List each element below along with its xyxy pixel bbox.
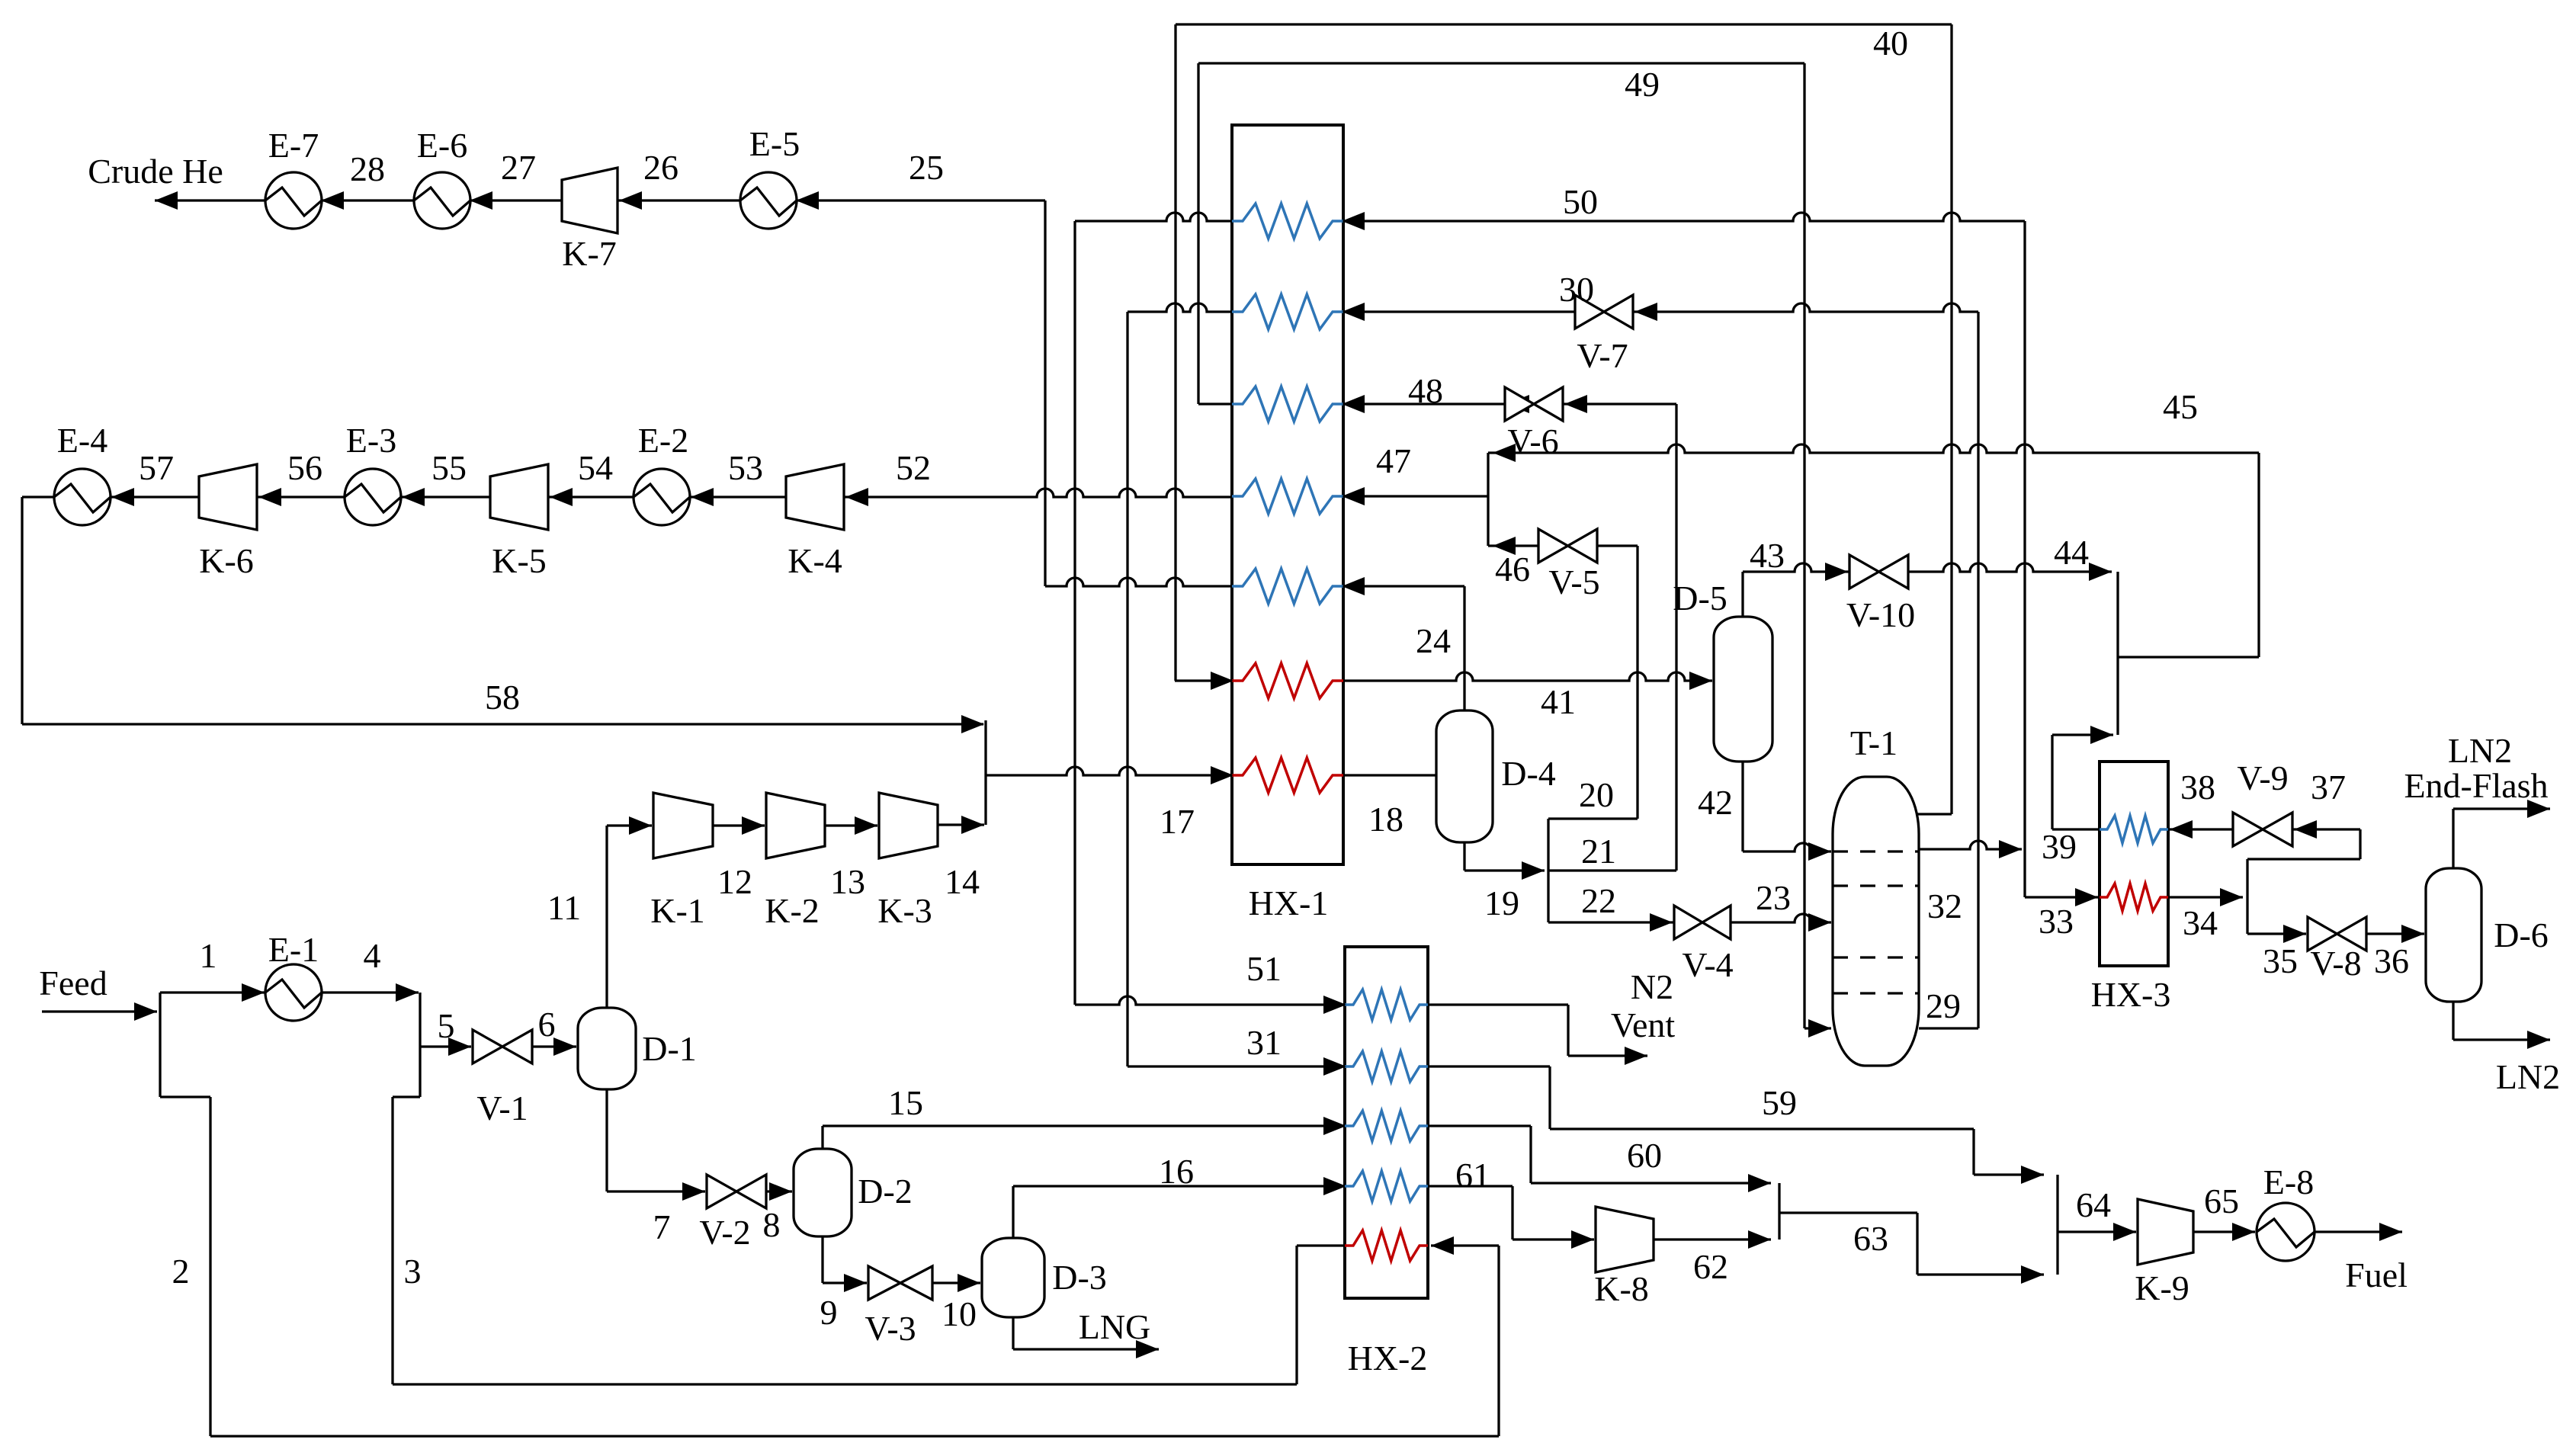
svg-text:60: 60 bbox=[1627, 1136, 1662, 1175]
wire stream 10 to D-3 bbox=[932, 1281, 980, 1284]
wire coil1 exit to stream 51 bbox=[1075, 213, 1232, 221]
wire coil3 exit to stream 49 bbox=[1198, 402, 1232, 405]
svg-text:V-5: V-5 bbox=[1548, 563, 1599, 601]
wire stream 32 bbox=[1919, 841, 2022, 849]
wire stream 17 into red coil bbox=[986, 767, 1232, 775]
compressor K-8 bbox=[1596, 1207, 1654, 1272]
compressor K-2 bbox=[766, 793, 825, 858]
svg-text:44: 44 bbox=[2054, 533, 2089, 572]
svg-text:End-Flash: End-Flash bbox=[2404, 766, 2548, 805]
valve V-2 bbox=[707, 1175, 736, 1208]
svg-text:61: 61 bbox=[1455, 1156, 1490, 1195]
wire stream 28 bbox=[321, 199, 415, 201]
wire stream 3 from red coil bbox=[1297, 1244, 1345, 1246]
svg-text:24: 24 bbox=[1416, 621, 1451, 660]
wire stream 37 bbox=[2292, 828, 2360, 830]
svg-text:31: 31 bbox=[1246, 1023, 1282, 1062]
valve V-9 bbox=[2233, 813, 2263, 846]
svg-text:50: 50 bbox=[1563, 182, 1598, 221]
svg-text:E-7: E-7 bbox=[268, 126, 319, 165]
svg-text:36: 36 bbox=[2374, 941, 2409, 980]
wire stream 42 bbox=[1741, 762, 1744, 851]
svg-text:18: 18 bbox=[1368, 800, 1403, 839]
wire stream 38 with valve V-9 bbox=[2168, 828, 2233, 830]
svg-text:2: 2 bbox=[172, 1252, 190, 1291]
svg-text:47: 47 bbox=[1376, 441, 1411, 480]
svg-text:14: 14 bbox=[945, 862, 980, 901]
wire stream 19 bbox=[1463, 842, 1465, 871]
svg-text:K-3: K-3 bbox=[877, 891, 932, 930]
HX-2 blue coil stream 31 bbox=[1345, 1051, 1428, 1082]
wire stream 44 bbox=[1908, 563, 2112, 572]
wire stream 51 bbox=[1075, 996, 1345, 1005]
svg-text:38: 38 bbox=[2180, 768, 2215, 807]
svg-text:12: 12 bbox=[717, 862, 752, 901]
node stream 3/4 junction bbox=[419, 993, 421, 1097]
wire stream 36 to D-6 bbox=[2366, 932, 2424, 935]
svg-text:49: 49 bbox=[1625, 65, 1660, 104]
node 60+62 merge bbox=[1778, 1183, 1780, 1240]
wire stream 21 to V-6 bbox=[1563, 402, 1676, 405]
wire stream 40 bbox=[1176, 23, 1952, 25]
multi-stream heat exchanger HX-2 bbox=[1345, 947, 1428, 1298]
heat exchanger E-3 bbox=[345, 469, 401, 525]
svg-text:62: 62 bbox=[1693, 1247, 1728, 1286]
svg-text:56: 56 bbox=[287, 448, 322, 487]
wire LN2 End-Flash outlet bbox=[2452, 809, 2454, 868]
svg-text:26: 26 bbox=[643, 148, 678, 187]
wire N2 Vent outlet bbox=[1428, 1003, 1568, 1005]
vessel D-1 bbox=[578, 1008, 636, 1089]
wire stream 5 to valve V-1 bbox=[420, 1045, 471, 1047]
wire stream 65 to E-8 bbox=[2193, 1230, 2255, 1233]
compressor K-5 bbox=[490, 464, 548, 530]
HX-1 blue coil stream 47 bbox=[1232, 479, 1343, 514]
wire stream 4 bbox=[321, 991, 419, 993]
svg-text:7: 7 bbox=[653, 1207, 671, 1246]
compressor K-6 bbox=[199, 464, 257, 530]
svg-text:E-8: E-8 bbox=[2263, 1163, 2314, 1201]
wire LN2 outlet bbox=[2452, 1002, 2454, 1040]
wire stream 1 bbox=[160, 991, 265, 993]
svg-text:E-2: E-2 bbox=[638, 421, 688, 460]
wire stream 56 bbox=[257, 495, 345, 498]
svg-text:HX-1: HX-1 bbox=[1249, 884, 1329, 922]
svg-text:41: 41 bbox=[1541, 682, 1576, 721]
svg-text:39: 39 bbox=[2042, 827, 2077, 866]
svg-text:D-5: D-5 bbox=[1673, 579, 1727, 617]
svg-text:Crude He: Crude He bbox=[88, 152, 223, 191]
svg-text:V-2: V-2 bbox=[699, 1213, 750, 1252]
wire stream 14 bbox=[938, 823, 984, 826]
svg-text:40: 40 bbox=[1873, 24, 1908, 63]
wire stream 20 to V-5 bbox=[1597, 544, 1638, 547]
svg-text:LN2: LN2 bbox=[2448, 731, 2512, 770]
wire stream 62 bbox=[1654, 1238, 1771, 1240]
svg-text:LN2: LN2 bbox=[2496, 1057, 2560, 1096]
svg-text:K-4: K-4 bbox=[788, 541, 842, 580]
wire stream 63 bbox=[1779, 1211, 1917, 1214]
compressor K-3 bbox=[879, 793, 938, 858]
svg-text:22: 22 bbox=[1581, 881, 1616, 920]
svg-text:V-1: V-1 bbox=[476, 1089, 528, 1127]
svg-text:51: 51 bbox=[1246, 949, 1282, 988]
wire stream 25 bbox=[796, 199, 1045, 201]
wire stream 16 bbox=[1012, 1186, 1014, 1238]
T-1 tray 3 bbox=[1833, 956, 1919, 958]
wire stream 39 bbox=[2052, 828, 2100, 830]
wire LNG outlet bbox=[1012, 1317, 1014, 1349]
svg-text:54: 54 bbox=[578, 448, 613, 487]
wire stream 27 bbox=[470, 199, 562, 201]
svg-text:63: 63 bbox=[1853, 1219, 1888, 1258]
wire stream 18 to D-4 bbox=[1343, 774, 1436, 776]
svg-text:4: 4 bbox=[364, 936, 381, 975]
svg-text:10: 10 bbox=[942, 1294, 977, 1333]
wire stream 6 to D-1 bbox=[532, 1045, 576, 1047]
HX-3 blue coil stream 38 bbox=[2100, 816, 2168, 843]
wire stream 58 bbox=[21, 497, 23, 724]
column T-1 bbox=[1833, 777, 1919, 1066]
HX-2 blue coil stream 51 bbox=[1345, 989, 1428, 1020]
svg-text:48: 48 bbox=[1408, 371, 1443, 410]
wire stream 33 bbox=[2025, 896, 2098, 898]
svg-text:11: 11 bbox=[547, 888, 581, 927]
wire stream 34 bbox=[2168, 896, 2243, 898]
wire streams 45+46 merge bbox=[1487, 453, 1489, 546]
multi-stream heat exchanger HX-1 bbox=[1232, 125, 1343, 864]
wire stream 21 bbox=[1548, 869, 1676, 871]
wire stream 35 to valve V-8 bbox=[2247, 932, 2306, 935]
svg-text:28: 28 bbox=[350, 149, 385, 188]
wire stream 26 bbox=[618, 199, 741, 201]
wire stream 46 with valve V-5 bbox=[1488, 544, 1538, 547]
wire stream 53 bbox=[689, 495, 786, 498]
svg-text:29: 29 bbox=[1926, 986, 1961, 1025]
svg-text:V-9: V-9 bbox=[2237, 758, 2288, 797]
svg-text:55: 55 bbox=[431, 448, 467, 487]
svg-text:6: 6 bbox=[538, 1005, 556, 1044]
svg-text:K-2: K-2 bbox=[765, 891, 820, 930]
vessel D-6 bbox=[2426, 868, 2481, 1002]
wire stream 13 bbox=[825, 824, 877, 826]
wire stream 44+39 to 45 bbox=[2116, 572, 2119, 735]
wire stream 61 to K-8 bbox=[1428, 1185, 1513, 1187]
wire Fuel outlet bbox=[2315, 1230, 2402, 1233]
heat exchanger E-7 bbox=[265, 172, 322, 229]
svg-text:Feed: Feed bbox=[39, 964, 107, 1002]
svg-text:E-5: E-5 bbox=[749, 124, 800, 163]
vessel D-3 bbox=[982, 1238, 1044, 1317]
HX-3 red coil stream 33 bbox=[2100, 884, 2168, 911]
wire stream Crude He outlet bbox=[155, 199, 266, 201]
wire stream 54 bbox=[548, 495, 634, 498]
compressor K-7 bbox=[562, 168, 618, 233]
wire stream 55 bbox=[400, 495, 490, 498]
valve V-6 bbox=[1505, 387, 1534, 421]
wire stream 41 to D-5 bbox=[1343, 672, 1712, 681]
wire stream 45 bbox=[1488, 444, 2259, 453]
svg-text:K-5: K-5 bbox=[492, 541, 547, 580]
svg-text:D-6: D-6 bbox=[2494, 916, 2549, 954]
svg-text:27: 27 bbox=[501, 148, 536, 187]
valve V-8 bbox=[2308, 917, 2337, 951]
svg-text:53: 53 bbox=[728, 448, 763, 487]
svg-text:D-1: D-1 bbox=[642, 1029, 697, 1068]
svg-text:42: 42 bbox=[1698, 783, 1733, 822]
svg-text:E-3: E-3 bbox=[346, 421, 396, 460]
svg-text:19: 19 bbox=[1484, 884, 1519, 922]
svg-text:52: 52 bbox=[896, 448, 931, 487]
valve V-5 bbox=[1538, 529, 1568, 563]
svg-text:D-2: D-2 bbox=[858, 1172, 913, 1211]
HX-1 blue coil stream 48 bbox=[1232, 386, 1343, 422]
HX-1 red coil stream 17 bbox=[1232, 758, 1343, 793]
svg-text:V-4: V-4 bbox=[1682, 945, 1733, 984]
valve V-1 bbox=[473, 1030, 502, 1063]
wire stream 24 into coil5 bbox=[1343, 585, 1464, 587]
svg-text:K-6: K-6 bbox=[199, 541, 254, 580]
svg-text:K-8: K-8 bbox=[1594, 1269, 1649, 1308]
wire stream 59 bbox=[1428, 1065, 1550, 1067]
svg-text:64: 64 bbox=[2076, 1185, 2111, 1224]
svg-text:5: 5 bbox=[438, 1006, 455, 1045]
HX-1 blue coil stream 30 bbox=[1232, 294, 1343, 329]
svg-text:21: 21 bbox=[1581, 832, 1616, 871]
heat exchanger E-8 bbox=[2257, 1203, 2315, 1261]
svg-text:59: 59 bbox=[1762, 1083, 1797, 1122]
svg-text:V-10: V-10 bbox=[1846, 595, 1915, 634]
wire stream 2 drop bbox=[160, 1095, 210, 1098]
svg-text:20: 20 bbox=[1579, 775, 1614, 814]
heat exchanger E-5 bbox=[740, 172, 797, 229]
HX-1 red coil stream 40 bbox=[1232, 663, 1343, 698]
svg-text:16: 16 bbox=[1159, 1152, 1194, 1191]
vessel D-5 bbox=[1714, 617, 1772, 762]
svg-text:V-7: V-7 bbox=[1577, 336, 1628, 375]
svg-text:K-9: K-9 bbox=[2135, 1268, 2189, 1307]
wire stream 43 bbox=[1741, 572, 1744, 617]
wire stream 20 bbox=[1547, 819, 1549, 922]
HX-2 blue coil stream 15 bbox=[1345, 1111, 1428, 1141]
wire stream 30 with valve V-7 bbox=[1343, 310, 1575, 313]
node feed split bbox=[159, 993, 161, 1097]
T-1 tray 4 bbox=[1833, 992, 1919, 994]
wire stream 57 bbox=[110, 495, 199, 498]
wire stream 29 bbox=[1919, 1027, 1978, 1029]
compressor K-1 bbox=[653, 793, 713, 858]
valve V-7 bbox=[1575, 295, 1604, 329]
wire stream 40 into red coil bbox=[1175, 679, 1232, 681]
heat exchanger E-6 bbox=[414, 172, 470, 229]
svg-text:T-1: T-1 bbox=[1850, 723, 1898, 762]
svg-text:E-6: E-6 bbox=[417, 126, 467, 165]
wire stream 23 to T-1 bbox=[1731, 914, 1831, 922]
wire stream 29 to V-7 bbox=[1633, 303, 1978, 312]
HX-1 blue coil stream 50 bbox=[1232, 204, 1343, 239]
svg-text:Vent: Vent bbox=[1611, 1005, 1676, 1044]
HX-1 blue coil stream 46 bbox=[1232, 569, 1343, 604]
heat exchanger E-4 bbox=[54, 469, 111, 525]
svg-text:1: 1 bbox=[200, 936, 217, 975]
svg-text:45: 45 bbox=[2163, 387, 2198, 426]
heat exchanger E-1 bbox=[265, 964, 322, 1021]
wire stream 48 bbox=[1343, 402, 1505, 405]
wire stream 52 bbox=[844, 489, 1232, 497]
svg-text:17: 17 bbox=[1160, 802, 1195, 841]
svg-text:N2: N2 bbox=[1631, 967, 1673, 1006]
wire Feed inlet bbox=[42, 1010, 157, 1012]
wire coil5 exit to stream 25 bbox=[1045, 578, 1232, 586]
svg-text:D-4: D-4 bbox=[1501, 754, 1556, 793]
svg-text:8: 8 bbox=[763, 1205, 781, 1244]
wire stream 47 bbox=[1343, 495, 1488, 497]
wire stream 11 bbox=[605, 826, 608, 1008]
svg-text:V-8: V-8 bbox=[2310, 944, 2361, 983]
svg-text:30: 30 bbox=[1559, 270, 1594, 309]
svg-text:35: 35 bbox=[2263, 941, 2298, 980]
svg-text:23: 23 bbox=[1756, 878, 1791, 917]
node 58+14 merge bbox=[984, 720, 986, 825]
svg-text:58: 58 bbox=[485, 678, 520, 717]
compressor K-9 bbox=[2138, 1199, 2193, 1265]
svg-text:V-3: V-3 bbox=[865, 1309, 916, 1348]
wire stream 22 to valve V-4 bbox=[1548, 921, 1674, 923]
svg-text:13: 13 bbox=[830, 862, 865, 901]
wire stream 8 to D-2 bbox=[766, 1190, 792, 1192]
svg-text:25: 25 bbox=[909, 148, 944, 187]
T-1 tray 2 bbox=[1833, 884, 1919, 887]
wire stream 15 bbox=[821, 1126, 823, 1149]
svg-text:65: 65 bbox=[2204, 1182, 2239, 1220]
svg-text:E-1: E-1 bbox=[268, 930, 319, 969]
svg-text:K-1: K-1 bbox=[650, 891, 705, 930]
wire coil2 exit to stream 31 bbox=[1128, 303, 1232, 312]
wire stream 60 bbox=[1428, 1124, 1531, 1127]
wire stream 2 into red coil bbox=[1431, 1244, 1499, 1246]
wire stream 49 bbox=[1198, 62, 1804, 64]
wire stream 9 bbox=[821, 1236, 823, 1283]
svg-text:3: 3 bbox=[404, 1252, 422, 1291]
multi-stream heat exchanger HX-3 bbox=[2100, 762, 2168, 966]
wire stream 64 to K-9 bbox=[2058, 1230, 2136, 1233]
svg-text:D-3: D-3 bbox=[1052, 1258, 1107, 1297]
heat exchanger E-2 bbox=[634, 469, 690, 525]
svg-text:33: 33 bbox=[2039, 902, 2074, 941]
svg-text:HX-3: HX-3 bbox=[2091, 975, 2171, 1014]
valve V-3 bbox=[868, 1266, 900, 1300]
wire stream 3 riser bbox=[393, 1095, 420, 1098]
svg-text:32: 32 bbox=[1927, 887, 1962, 925]
svg-text:15: 15 bbox=[888, 1083, 923, 1122]
vessel D-2 bbox=[794, 1149, 852, 1236]
wire stream 3 bottom bbox=[393, 1383, 1297, 1385]
svg-text:46: 46 bbox=[1495, 550, 1530, 588]
svg-text:K-7: K-7 bbox=[562, 234, 617, 273]
HX-2 blue coil stream 16 bbox=[1345, 1171, 1428, 1201]
svg-text:E-4: E-4 bbox=[57, 421, 107, 460]
node 59+63 merge bbox=[2056, 1175, 2058, 1275]
svg-text:57: 57 bbox=[139, 448, 174, 487]
T-1 tray 1 bbox=[1833, 850, 1919, 852]
wire stream 2 bottom bbox=[210, 1435, 1499, 1437]
svg-text:9: 9 bbox=[820, 1293, 838, 1332]
svg-text:Fuel: Fuel bbox=[2345, 1256, 2408, 1294]
svg-text:LNG: LNG bbox=[1079, 1307, 1151, 1346]
wire stream 12 bbox=[713, 824, 765, 826]
wire stream 31 bbox=[1128, 1065, 1345, 1067]
HX-2 red coil stream 2 bbox=[1345, 1230, 1428, 1261]
arrow stream 50 into coil1 bbox=[1343, 213, 2025, 221]
svg-text:37: 37 bbox=[2311, 768, 2346, 807]
wire stream 7 bbox=[605, 1089, 608, 1191]
valve V-10 bbox=[1849, 555, 1879, 588]
svg-text:HX-2: HX-2 bbox=[1348, 1339, 1428, 1377]
svg-text:43: 43 bbox=[1750, 536, 1785, 575]
vessel D-4 bbox=[1436, 710, 1493, 842]
compressor K-4 bbox=[786, 464, 844, 530]
valve V-4 bbox=[1674, 906, 1702, 939]
svg-text:34: 34 bbox=[2183, 903, 2218, 942]
